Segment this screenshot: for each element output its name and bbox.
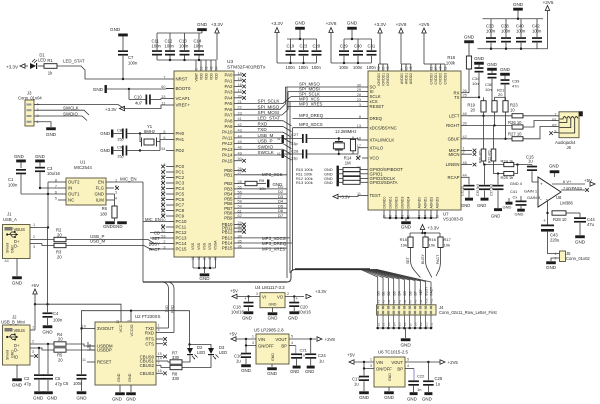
U3 top VDD pins and bus	[195, 60, 197, 71]
svg-text:100n: 100n	[53, 318, 63, 323]
svg-text:100n: 100n	[353, 65, 363, 70]
svg-text:GND: GND	[47, 396, 58, 401]
ground below J3	[40, 122, 51, 127]
svg-text:PD2: PD2	[176, 148, 185, 153]
capacitor C25 1u	[427, 362, 429, 380]
svg-text:DGND2: DGND2	[394, 197, 398, 209]
svg-text:3: 3	[127, 320, 131, 322]
svg-text:PA10: PA10	[222, 130, 233, 135]
svg-text:PA12: PA12	[222, 141, 233, 146]
svg-text:GNDGND: GNDGND	[103, 224, 123, 229]
svg-text:100n: 100n	[501, 29, 511, 34]
svg-text:PC4: PC4	[176, 186, 185, 191]
svg-text:39: 39	[381, 66, 385, 70]
svg-text:50: 50	[238, 157, 242, 161]
svg-text:AVDD1: AVDD1	[404, 73, 408, 84]
svg-text:USB_M: USB_M	[258, 133, 274, 138]
svg-text:+3.3V: +3.3V	[428, 226, 440, 231]
svg-text:33: 33	[238, 228, 242, 232]
svg-text:GND: GND	[12, 281, 23, 286]
capacitor C20 10u/16	[285, 295, 304, 297]
svg-text:SET: SET	[406, 256, 410, 264]
svg-text:+5V: +5V	[347, 353, 355, 358]
svg-text:R26 10: R26 10	[508, 120, 522, 125]
svg-text:100n: 100n	[367, 65, 377, 70]
svg-text:7: 7	[158, 361, 160, 365]
svg-text:PH0: PH0	[176, 131, 185, 136]
svg-text:U6 TC1015-2.5: U6 TC1015-2.5	[378, 350, 408, 355]
svg-text:GND: GND	[422, 397, 432, 402]
svg-text:PB1: PB1	[224, 172, 233, 177]
svg-text:44: 44	[238, 134, 242, 138]
svg-text:100n: 100n	[532, 29, 542, 34]
svg-text:27: 27	[434, 66, 438, 70]
svg-text:LED: LED	[197, 350, 205, 355]
resistors R24 R25 1k	[483, 161, 485, 165]
svg-text:DGND1: DGND1	[388, 197, 392, 209]
svg-text:D5: D5	[403, 291, 407, 295]
svg-text:VCO: VCO	[370, 156, 380, 161]
svg-text:PA15: PA15	[222, 158, 233, 163]
svg-text:12: 12	[116, 320, 120, 324]
svg-text:5: 5	[55, 196, 57, 200]
svg-text:S: S	[554, 130, 556, 134]
svg-text:VIN: VIN	[258, 337, 265, 342]
grounds below R6	[105, 221, 115, 224]
svg-text:PB2: PB2	[224, 181, 233, 186]
svg-text:43: 43	[439, 66, 443, 70]
capacitor C44 47u	[579, 213, 581, 217]
svg-text:DGND3: DGND3	[400, 197, 404, 209]
capacitor C4 100n	[47, 304, 49, 312]
svg-text:63: 63	[214, 256, 218, 260]
svg-text:3: 3	[359, 103, 361, 107]
svg-text:5: 5	[400, 68, 404, 70]
svg-text:VCC: VCC	[119, 324, 123, 332]
svg-text:R28 10: R28 10	[553, 217, 567, 222]
svg-text:VSSA: VSSA	[214, 240, 218, 250]
svg-text:SET: SET	[419, 289, 423, 295]
svg-text:VCAP1: VCAP1	[176, 96, 191, 101]
svg-text:19: 19	[199, 66, 203, 70]
svg-text:15p: 15p	[117, 137, 124, 142]
resistor R14 1M	[350, 139, 355, 150]
svg-text:U3: U3	[227, 59, 233, 65]
svg-text:34: 34	[238, 234, 242, 238]
svg-text:OUT2: OUT2	[68, 180, 80, 185]
svg-text:PA2: PA2	[225, 84, 234, 89]
svg-text:13: 13	[191, 256, 195, 260]
svg-text:64: 64	[214, 66, 218, 70]
svg-text:2: 2	[463, 150, 465, 154]
svg-text:4: 4	[417, 215, 421, 217]
svg-text:11: 11	[443, 66, 447, 70]
wires TXD RXD from U2 to verticals	[162, 327, 169, 329]
wires U5 VOUT to +2V8	[289, 338, 316, 340]
svg-text:ILIM: ILIM	[96, 198, 105, 203]
svg-text:GPIO3/SDATA: GPIO3/SDATA	[370, 180, 398, 185]
svg-text:1: 1	[33, 223, 35, 227]
svg-text:GND: GND	[33, 396, 44, 401]
svg-text:49: 49	[238, 151, 242, 155]
svg-text:40: 40	[386, 66, 390, 70]
U7 top supply pins	[378, 64, 380, 71]
svg-text:22: 22	[238, 106, 242, 110]
svg-text:3: 3	[256, 292, 258, 296]
svg-text:GND: GND	[76, 396, 87, 401]
svg-text:45: 45	[238, 140, 242, 144]
svg-text:57: 57	[238, 195, 242, 199]
svg-text:USB_M: USB_M	[90, 238, 105, 243]
svg-text:PC9: PC9	[176, 214, 185, 219]
svg-text:59: 59	[238, 205, 242, 209]
svg-text:100n: 100n	[179, 44, 189, 49]
svg-text:VOUT: VOUT	[275, 337, 287, 342]
svg-text:D2: D2	[387, 291, 391, 295]
svg-text:GND: GND	[14, 154, 24, 159]
svg-text:D4: D4	[398, 291, 402, 295]
svg-text:23: 23	[357, 98, 361, 102]
svg-text:GBUF: GBUF	[448, 136, 460, 141]
capacitor C21 1n on BP	[289, 345, 296, 347]
svg-text:R2: R2	[552, 123, 556, 127]
wires U1 inputs	[21, 193, 58, 195]
svg-text:23: 23	[238, 111, 242, 115]
U3 bottom VSS pins	[192, 257, 194, 268]
svg-text:5: 5	[407, 358, 409, 362]
svg-text:Shield: Shield	[6, 350, 10, 360]
svg-text:330: 330	[172, 376, 180, 381]
svg-text:GND: GND	[305, 369, 314, 374]
wire LINEIN xmark	[468, 164, 472, 166]
svg-text:3: 3	[370, 364, 372, 368]
svg-text:3: 3	[33, 245, 35, 249]
svg-text:GND: GND	[288, 316, 298, 321]
svg-text:LED_STAT: LED_STAT	[63, 59, 85, 64]
svg-text:PC14: PC14	[176, 241, 188, 246]
svg-text:1n: 1n	[301, 353, 305, 358]
svg-text:NC: NC	[68, 198, 74, 203]
svg-text:10k: 10k	[444, 243, 450, 248]
svg-text:VDD: VDD	[209, 72, 213, 80]
svg-text:CVDD3: CVDD3	[443, 73, 447, 85]
svg-text:XTALO: XTALO	[370, 145, 384, 150]
svg-text:Shield: Shield	[6, 243, 10, 253]
svg-text:A4: A4	[5, 259, 9, 263]
svg-text:PA8: PA8	[225, 118, 234, 123]
svg-text:MP3_XRES: MP3_XRES	[262, 246, 285, 251]
svg-text:+: +	[540, 183, 543, 188]
svg-text:C41: C41	[510, 189, 518, 194]
svg-text:AGND0: AGND0	[417, 197, 421, 209]
svg-text:20: 20	[57, 233, 62, 238]
svg-text:15: 15	[238, 77, 242, 81]
svg-text:B5: B5	[398, 322, 402, 326]
svg-text:LM386: LM386	[560, 201, 573, 206]
svg-text:GND: GND	[128, 373, 132, 382]
svg-text:20: 20	[57, 255, 62, 260]
svg-text:PC12: PC12	[176, 230, 188, 235]
svg-text:1u: 1u	[354, 382, 359, 387]
svg-text:GND: GND	[474, 56, 484, 61]
pins MICP MICN stubs xmarks	[468, 149, 472, 151]
svg-text:44: 44	[463, 174, 467, 178]
svg-text:PC1: PC1	[176, 170, 185, 175]
svg-text:R1: R1	[47, 58, 53, 63]
svg-text:18: 18	[197, 256, 201, 260]
svg-text:T: T	[555, 113, 557, 117]
svg-text:GND: GND	[549, 164, 559, 169]
svg-text:1M: 1M	[345, 160, 351, 165]
svg-text:U8: U8	[556, 195, 562, 200]
svg-text:100n: 100n	[194, 44, 204, 49]
svg-text:USB_P: USB_P	[258, 139, 273, 144]
svg-text:330: 330	[172, 355, 180, 360]
svg-text:C2: C2	[24, 376, 30, 381]
svg-text:SPI_SCLK: SPI_SCLK	[258, 99, 281, 104]
svg-text:PB9: PB9	[224, 215, 233, 220]
svg-text:47p: 47p	[55, 382, 63, 387]
svg-text:31: 31	[203, 256, 207, 260]
svg-text:GND: GND	[93, 87, 104, 92]
svg-text:PC10: PC10	[176, 219, 188, 224]
svg-text:4: 4	[115, 196, 117, 200]
svg-text:PACT: PACT	[430, 287, 434, 296]
svg-text:TEST: TEST	[370, 193, 381, 198]
connector J4 Conn_02x11	[377, 305, 437, 315]
svg-text:3: 3	[32, 350, 34, 354]
svg-text:1: 1	[194, 68, 198, 70]
svg-text:D-: D-	[14, 348, 19, 353]
svg-text:C31: C31	[368, 44, 376, 49]
svg-text:100n: 100n	[128, 61, 138, 66]
svg-text:R13 100k: R13 100k	[296, 180, 313, 185]
svg-text:54: 54	[161, 147, 165, 151]
svg-text:12.288MHz: 12.288MHz	[335, 129, 356, 134]
svg-text:LED: LED	[219, 350, 227, 355]
svg-text:PC6: PC6	[176, 197, 185, 202]
svg-text:3: 3	[115, 190, 117, 194]
svg-text:GND: GND	[513, 2, 524, 7]
capacitor C22 1n on BP	[405, 368, 414, 370]
connector J6 Audiojack4	[559, 112, 579, 138]
svg-text:IOVDD2: IOVDD2	[386, 73, 390, 86]
svg-text:4: 4	[158, 328, 160, 332]
svg-text:+2V5: +2V5	[448, 360, 459, 365]
svg-text:GND: GND	[401, 225, 412, 230]
IC U3 STM32F401RBTx	[174, 71, 234, 257]
svg-text:BUSY: BUSY	[421, 254, 425, 264]
svg-text:C1: C1	[8, 177, 14, 182]
svg-text:B6: B6	[403, 322, 407, 326]
svg-text:+3.3V: +3.3V	[271, 21, 284, 26]
svg-text:MICN: MICN	[449, 152, 460, 157]
svg-text:CVDD2: CVDD2	[439, 73, 443, 85]
svg-text:RESET: RESET	[97, 360, 112, 365]
svg-text:25: 25	[463, 94, 467, 98]
U5 ground pin	[271, 364, 273, 367]
svg-text:14: 14	[158, 357, 162, 361]
svg-text:U2 FT230XS: U2 FT230XS	[135, 314, 160, 319]
ground below U7	[405, 218, 407, 221]
svg-text:20: 20	[498, 92, 503, 97]
svg-text:GND: GND	[46, 132, 57, 137]
J4 bottom pins to ground	[377, 315, 379, 328]
svg-text:AGND2: AGND2	[429, 197, 433, 209]
wire +5V to U2 VCC	[35, 304, 121, 322]
svg-text:B2: B2	[382, 322, 386, 326]
svg-text:MP3_DREQ: MP3_DREQ	[299, 113, 324, 118]
svg-text:100n: 100n	[286, 65, 296, 70]
wire TX network	[468, 96, 479, 98]
U7 bottom ground pins	[383, 210, 385, 218]
svg-text:VI: VI	[262, 295, 266, 300]
svg-text:3V3OUT: 3V3OUT	[97, 326, 114, 331]
svg-text:PA9: PA9	[225, 124, 234, 129]
svg-text:D3: D3	[392, 291, 396, 295]
wire VBUS J1 up to U1 OUT	[37, 194, 48, 228]
svg-text:10: 10	[82, 325, 86, 329]
wire 3V3OUT loop	[82, 328, 88, 330]
svg-text:+5V: +5V	[31, 283, 40, 288]
svg-text:-: -	[540, 197, 542, 203]
svg-text:GND: GND	[268, 316, 278, 321]
wire RCAP to C32	[468, 177, 469, 179]
svg-text:7 BYPASS: 7 BYPASS	[563, 185, 582, 190]
svg-text:USB_B_Mini: USB_B_Mini	[1, 320, 25, 325]
svg-text:R18: R18	[447, 55, 455, 60]
svg-text:PA13: PA13	[222, 147, 233, 152]
svg-text:33p: 33p	[291, 141, 298, 146]
svg-text:D-: D-	[14, 244, 19, 249]
wire LED_STAT to NRST node	[57, 66, 166, 79]
power +3.3V right of U4	[306, 294, 311, 298]
svg-text:VDD: VDD	[214, 72, 218, 80]
svg-text:C22: C22	[417, 374, 425, 379]
svg-text:AGND3: AGND3	[435, 197, 439, 209]
svg-text:Conn_02x11_Row_Letter_First: Conn_02x11_Row_Letter_First	[439, 310, 497, 315]
svg-text:1: 1	[252, 335, 254, 339]
svg-text:PA3: PA3	[225, 90, 234, 95]
svg-text:+3.3V: +3.3V	[211, 22, 224, 27]
svg-text:GND: GND	[269, 303, 277, 307]
svg-text:AVDD2: AVDD2	[409, 73, 413, 84]
svg-text:+2V8: +2V8	[326, 21, 337, 26]
svg-text:1u: 1u	[236, 359, 241, 364]
svg-text:10k: 10k	[429, 243, 435, 248]
svg-text:2: 2	[32, 340, 34, 344]
svg-text:10n: 10n	[472, 81, 479, 86]
svg-text:GND: GND	[464, 35, 475, 40]
svg-text:C7: C7	[128, 55, 134, 60]
svg-text:GND: GND	[477, 203, 486, 208]
svg-text:PC3: PC3	[176, 181, 185, 186]
capacitor C17 1u	[363, 369, 365, 376]
ground below J2	[16, 365, 18, 378]
IC U7 VS1003-B	[368, 71, 461, 210]
svg-text:C10: C10	[134, 95, 142, 100]
svg-text:R15: R15	[400, 237, 408, 242]
svg-text:G: G	[277, 137, 281, 140]
svg-text:10n: 10n	[485, 87, 492, 92]
svg-text:1: 1	[32, 326, 34, 330]
svg-text:CVDD1: CVDD1	[434, 73, 438, 85]
svg-text:+: +	[543, 218, 546, 223]
svg-text:+2V8: +2V8	[396, 22, 407, 27]
svg-text:VOUT: VOUT	[391, 360, 403, 365]
svg-text:IN: IN	[68, 186, 72, 191]
svg-text:C37 3n3: C37 3n3	[490, 184, 494, 196]
svg-text:J1: J1	[7, 212, 12, 217]
svg-text:IOVDD1: IOVDD1	[381, 73, 385, 86]
svg-text:GND: GND	[388, 373, 392, 381]
svg-text:1u: 1u	[436, 382, 441, 387]
svg-text:Conn_01x02: Conn_01x02	[566, 256, 590, 261]
svg-text:R27 10: R27 10	[508, 132, 522, 137]
svg-text:PA11: PA11	[222, 135, 233, 140]
svg-text:6 V+: 6 V+	[563, 179, 572, 184]
svg-text:TXD: TXD	[165, 305, 169, 313]
svg-text:48: 48	[463, 161, 467, 165]
svg-text:IOVDD0: IOVDD0	[377, 73, 381, 86]
svg-text:C23: C23	[300, 44, 308, 49]
svg-text:R16: R16	[429, 237, 437, 242]
svg-text:C29: C29	[340, 44, 348, 49]
svg-text:B9: B9	[419, 322, 423, 326]
ground below J1	[16, 259, 18, 277]
svg-text:PB12: PB12	[222, 230, 233, 235]
diagonal fan PA5-PA7 to SPI rows	[242, 97, 291, 104]
svg-text:B8: B8	[414, 322, 418, 326]
svg-text:27: 27	[238, 171, 242, 175]
op-amp U8 LM386	[538, 177, 561, 207]
svg-text:+3.3V: +3.3V	[6, 64, 19, 69]
svg-text:PA0: PA0	[225, 73, 234, 78]
svg-text:16: 16	[158, 369, 162, 373]
resistors R19 R23 vertical	[481, 101, 486, 112]
svg-text:48: 48	[209, 66, 213, 70]
svg-text:C35 3n3: C35 3n3	[476, 184, 480, 196]
svg-text:100n: 100n	[299, 65, 309, 70]
resistor R1 1k	[44, 64, 57, 69]
svg-text:U1: U1	[80, 160, 86, 165]
svg-text:DGND4: DGND4	[406, 197, 410, 209]
svg-text:A8: A8	[414, 299, 418, 303]
svg-text:BOOT0: BOOT0	[176, 86, 191, 91]
svg-text:GND: GND	[242, 316, 252, 321]
wire 3V3OUT to VCCIO and LEDs	[82, 311, 212, 374]
svg-text:+3.3V: +3.3V	[105, 107, 117, 112]
svg-text:GND: GND	[400, 343, 411, 348]
svg-text:C30: C30	[354, 44, 362, 49]
svg-text:30: 30	[357, 83, 361, 87]
svg-text:C25: C25	[435, 376, 443, 381]
wires R4 R5 to U2 with jumpers	[66, 344, 95, 346]
svg-text:GND: GND	[575, 240, 586, 245]
svg-text:USB_A: USB_A	[3, 217, 17, 222]
svg-text:VSS: VSS	[208, 242, 212, 250]
svg-text:GND: GND	[491, 214, 500, 219]
svg-text:PC5: PC5	[176, 192, 185, 197]
svg-text:GND: GND	[500, 67, 510, 72]
svg-text:PA5: PA5	[225, 101, 234, 106]
svg-text:28: 28	[238, 180, 242, 184]
svg-text:32: 32	[204, 66, 208, 70]
svg-text:GND: GND	[347, 21, 358, 26]
wires U6 VOUT to +2V5	[405, 361, 440, 363]
svg-text:PA1: PA1	[225, 78, 234, 83]
svg-text:4: 4	[291, 341, 293, 345]
